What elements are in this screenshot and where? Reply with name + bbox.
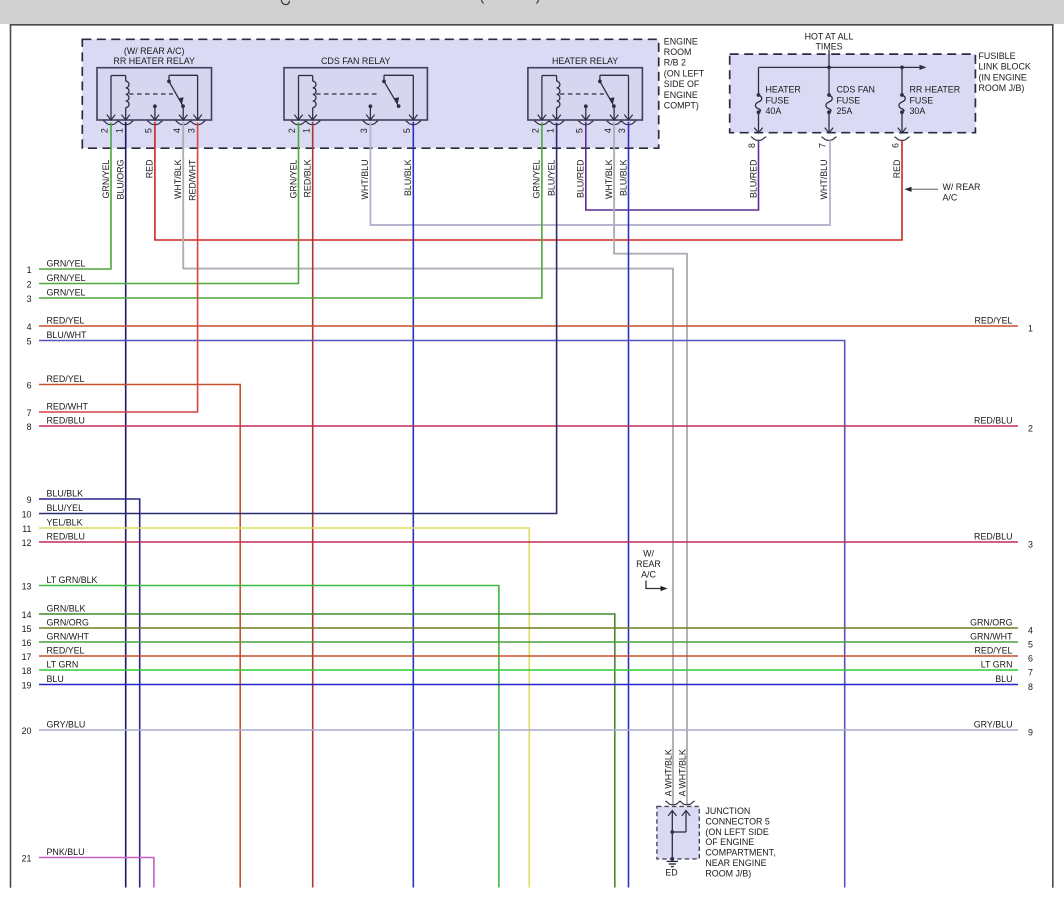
svg-text:6: 6 (1028, 654, 1033, 664)
svg-text:WHT/BLU: WHT/BLU (819, 160, 829, 200)
svg-text:4: 4 (172, 128, 182, 133)
wire: BLU/BLK from heater relay pin3 down off-page (628, 122, 630, 888)
wire row 19: BLU (39, 684, 1018, 686)
svg-text:BLU/WHT: BLU/WHT (47, 330, 88, 340)
svg-text:7: 7 (1028, 668, 1033, 678)
svg-text:(W/ REAR A/C): (W/ REAR A/C) (124, 46, 185, 56)
junction connector 5 (dashed lavender box) (657, 806, 699, 859)
svg-text:5: 5 (402, 128, 412, 133)
wire row 16: GRN/WHT (39, 641, 1018, 643)
wire row 4: RED/YEL (39, 325, 1018, 327)
wire: RR relay pin1 BLU/ORG down off-page (125, 122, 127, 888)
svg-text:BLU: BLU (47, 674, 64, 684)
svg-text:WHT/BLU: WHT/BLU (360, 160, 370, 200)
page frame border (10, 24, 12, 888)
svg-text:RED/BLK: RED/BLK (303, 159, 313, 197)
svg-text:A: A (677, 790, 687, 796)
svg-text:GRN/ORG: GRN/ORG (47, 617, 90, 627)
svg-text:GRY/BLU: GRY/BLU (974, 719, 1013, 729)
svg-text:16: 16 (22, 638, 32, 648)
svg-text:RED/YEL: RED/YEL (47, 374, 85, 384)
svg-text:GRN/YEL: GRN/YEL (47, 287, 86, 297)
svg-text:4: 4 (27, 322, 32, 332)
svg-text:ED: ED (665, 868, 677, 878)
svg-text:3: 3 (359, 128, 369, 133)
wire row 17: RED/YEL (39, 655, 1018, 657)
svg-text:7: 7 (818, 143, 828, 148)
svg-text:NEAR ENGINE: NEAR ENGINE (705, 858, 766, 868)
svg-text:RED/YEL: RED/YEL (975, 315, 1013, 325)
fuse F3 RR HEATER FUSE 30A (900, 93, 904, 97)
svg-text:ROOM J/B): ROOM J/B) (705, 868, 751, 878)
svg-text:2: 2 (27, 280, 32, 290)
svg-text:LT GRN: LT GRN (981, 659, 1013, 669)
svg-text:CDS FAN: CDS FAN (837, 85, 875, 95)
svg-text:GRN/YEL: GRN/YEL (47, 258, 86, 268)
svg-text:WHT/BLK: WHT/BLK (604, 159, 614, 199)
svg-text:3: 3 (617, 128, 627, 133)
svg-text:A/C: A/C (641, 570, 656, 580)
svg-text:18: 18 (22, 666, 32, 676)
svg-text:COMPARTMENT,: COMPARTMENT, (705, 848, 775, 858)
fusible link block (dashed lavender box) (730, 54, 976, 133)
svg-text:FUSE: FUSE (910, 95, 934, 105)
svg-text:RED/YEL: RED/YEL (975, 645, 1013, 655)
svg-text:GRN/BLK: GRN/BLK (47, 603, 86, 613)
svg-text:BLU: BLU (995, 674, 1012, 684)
fusible link block bus wiring (828, 50, 830, 68)
svg-text:BLU/BLK: BLU/BLK (47, 488, 84, 498)
svg-text:WHT/BLK: WHT/BLK (663, 749, 673, 789)
svg-text:WHT/BLK: WHT/BLK (677, 749, 687, 789)
svg-text:COMPT): COMPT) (664, 101, 699, 111)
svg-text:LT GRN: LT GRN (47, 659, 79, 669)
svg-text:19: 19 (22, 681, 32, 691)
svg-text:4: 4 (1028, 626, 1033, 636)
junction connector cups (665, 801, 680, 805)
svg-text:BLU/RED: BLU/RED (748, 160, 758, 198)
svg-text:RR HEATER RELAY: RR HEATER RELAY (113, 56, 195, 66)
wire row 15: GRN/ORG (39, 627, 1018, 629)
svg-text:ROOM: ROOM (664, 47, 692, 57)
svg-text:1: 1 (27, 265, 32, 275)
fuse F1 HEATER FUSE 40A (757, 93, 761, 97)
svg-text:GRN/WHT: GRN/WHT (970, 631, 1013, 641)
svg-text:RED/BLU: RED/BLU (47, 531, 85, 541)
svg-text:14: 14 (22, 610, 32, 620)
wire row 20: GRY/BLU (39, 729, 1018, 731)
svg-text:BLU/ORG: BLU/ORG (116, 159, 126, 199)
svg-text:A: A (663, 790, 673, 796)
svg-text:RR HEATER: RR HEATER (910, 85, 961, 95)
svg-text:HOT AT ALL: HOT AT ALL (805, 32, 854, 42)
wire: WHT/BLK from RR relay pin4 to junction connector (left) (183, 122, 673, 804)
wire row 8: RED/BLU (39, 425, 1018, 427)
svg-text:6: 6 (27, 381, 32, 391)
top gray band (0, 0, 1064, 24)
wire row 13: LT GRN/BLK (39, 586, 499, 888)
svg-text:GRY/BLU: GRY/BLU (47, 719, 86, 729)
wire: WHT/BLU from CDS relay pin3 to fuse 7 (370, 122, 830, 225)
wire row 2: GRN/YEL (39, 123, 299, 284)
relay pin cups and pin numbers (103, 121, 118, 125)
wire row 14: GRN/BLK (39, 614, 615, 888)
svg-text:RED/BLU: RED/BLU (974, 415, 1012, 425)
svg-text:HEATER RELAY: HEATER RELAY (552, 56, 618, 66)
svg-text:8: 8 (747, 143, 757, 148)
svg-text:WHT/BLK: WHT/BLK (173, 159, 183, 199)
svg-text:2: 2 (287, 128, 297, 133)
svg-text:R/B 2: R/B 2 (664, 58, 686, 68)
svg-text:ENGINE: ENGINE (664, 90, 698, 100)
svg-text:1: 1 (114, 128, 124, 133)
svg-text:1: 1 (1028, 324, 1033, 334)
svg-text:BLU/RED: BLU/RED (576, 160, 586, 198)
svg-text:2: 2 (1028, 424, 1033, 434)
wire row 21: PNK/BLU (39, 858, 154, 888)
svg-text:RED/WHT: RED/WHT (47, 401, 89, 411)
wire row 11: YEL/BLK (39, 528, 529, 888)
svg-text:2: 2 (531, 128, 541, 133)
svg-text:GRN/YEL: GRN/YEL (532, 159, 542, 198)
svg-text:6: 6 (891, 143, 901, 148)
svg-text:21: 21 (22, 854, 32, 864)
svg-text:1: 1 (545, 128, 555, 133)
svg-text:RED/BLU: RED/BLU (974, 531, 1012, 541)
svg-text:HEATER: HEATER (766, 85, 801, 95)
svg-text:GRN/YEL: GRN/YEL (288, 159, 298, 198)
fuse F2 CDS FAN FUSE 25A (827, 93, 831, 97)
svg-text:A/C: A/C (943, 193, 958, 203)
svg-text:YEL/BLK: YEL/BLK (47, 517, 83, 527)
svg-text:BLU/BLK: BLU/BLK (618, 159, 628, 196)
svg-text:FUSE: FUSE (837, 95, 861, 105)
svg-text:40A: 40A (766, 106, 782, 116)
wire row 10: BLU/YEL (39, 123, 557, 514)
svg-text:GRN/YEL: GRN/YEL (101, 159, 111, 198)
wire row 5: BLU/WHT (39, 341, 845, 888)
svg-text:ENGINE: ENGINE (664, 36, 698, 46)
wire row 18: LT GRN (39, 669, 1018, 671)
svg-text:RED/YEL: RED/YEL (47, 315, 85, 325)
svg-text:RED: RED (145, 160, 155, 179)
svg-text:5: 5 (575, 128, 585, 133)
wire row 12: RED/BLU (39, 541, 1018, 543)
svg-text:9: 9 (27, 495, 32, 505)
svg-text:1: 1 (301, 128, 311, 133)
wire row 3: GRN/YEL (39, 123, 542, 299)
svg-text:9: 9 (1028, 728, 1033, 738)
svg-text:11: 11 (22, 524, 31, 534)
svg-text:FUSE: FUSE (766, 95, 790, 105)
svg-text:OF ENGINE: OF ENGINE (705, 837, 754, 847)
wire row 6: RED/YEL (39, 385, 240, 888)
svg-text:5: 5 (144, 128, 154, 133)
svg-text:3: 3 (1028, 540, 1033, 550)
svg-text:FUSIBLE: FUSIBLE (979, 51, 1016, 61)
wire: BLU/RED from heater relay pin5 to fuse 8 (586, 122, 759, 210)
wire row 9: BLU/BLK (39, 499, 140, 888)
relay U3 HEATER RELAY (528, 68, 643, 120)
svg-text:PNK/BLU: PNK/BLU (47, 847, 85, 857)
svg-text:GRN/YEL: GRN/YEL (47, 273, 86, 283)
svg-text:25A: 25A (837, 106, 853, 116)
svg-text:ROOM J/B): ROOM J/B) (979, 83, 1025, 93)
relay U1 (W/ REAR A/C) RR HEATER RELAY (97, 68, 212, 120)
svg-text:BLU/BLK: BLU/BLK (403, 159, 413, 196)
svg-text:(IN ENGINE: (IN ENGINE (979, 72, 1027, 82)
relay U2 CDS FAN RELAY (284, 68, 427, 120)
svg-text:15: 15 (22, 624, 32, 634)
wire: RED/BLK from CDS relay pin1 down off-page (312, 122, 314, 888)
wire: WHT/BLK from heater relay pin4 to junction connector (right) (614, 122, 687, 804)
wire: RED from RR relay pin5 to fuse 6 (155, 122, 902, 240)
svg-text:SIDE OF: SIDE OF (664, 79, 700, 89)
svg-text:BLU/YEL: BLU/YEL (47, 503, 84, 513)
svg-text:5: 5 (27, 337, 32, 347)
svg-text:CONNECTOR 5: CONNECTOR 5 (705, 816, 769, 826)
svg-text:RED/BLU: RED/BLU (47, 415, 85, 425)
ground ED (671, 859, 673, 861)
svg-text:W/ REAR: W/ REAR (943, 182, 981, 192)
svg-text:3: 3 (186, 128, 196, 133)
svg-text:2: 2 (100, 128, 110, 133)
svg-text:13: 13 (22, 582, 32, 592)
svg-text:RED/YEL: RED/YEL (47, 645, 85, 655)
svg-text:RED/WHT: RED/WHT (187, 159, 197, 201)
svg-text:W/: W/ (643, 549, 654, 559)
svg-text:GRN/WHT: GRN/WHT (47, 631, 90, 641)
junction internal wiring (668, 811, 676, 816)
wire row 1: GRN/YEL (39, 123, 111, 270)
svg-text:BLU/YEL: BLU/YEL (546, 159, 556, 196)
wire row 7: RED/WHT (39, 123, 198, 413)
svg-text:RED: RED (892, 160, 902, 179)
svg-text:10: 10 (22, 510, 32, 520)
svg-text:20: 20 (22, 726, 32, 736)
engine room relay block R/B 2 (dashed lavender box) (82, 39, 658, 148)
svg-text:17: 17 (22, 652, 32, 662)
wire: BLU/BLK from CDS relay pin5 down off-page (412, 122, 414, 888)
svg-text:30A: 30A (910, 106, 926, 116)
svg-text:8: 8 (27, 422, 32, 432)
svg-text:REAR: REAR (636, 559, 661, 569)
svg-text:(ON LEFT: (ON LEFT (664, 68, 705, 78)
svg-text:GRN/ORG: GRN/ORG (970, 617, 1013, 627)
fuse pin cups and numbers 8 7 6 (751, 137, 766, 141)
svg-text:CDS FAN RELAY: CDS FAN RELAY (321, 56, 390, 66)
svg-text:LT GRN/BLK: LT GRN/BLK (47, 575, 98, 585)
svg-text:5: 5 (1028, 640, 1033, 650)
cut-off title descenders (281, 0, 289, 5)
svg-text:3: 3 (27, 294, 32, 304)
svg-text:4: 4 (603, 128, 613, 133)
svg-text:8: 8 (1028, 682, 1033, 692)
svg-text:LINK BLOCK: LINK BLOCK (979, 62, 1031, 72)
svg-text:(ON LEFT SIDE: (ON LEFT SIDE (705, 827, 769, 837)
svg-text:7: 7 (27, 408, 32, 418)
svg-text:12: 12 (22, 538, 32, 548)
svg-text:JUNCTION: JUNCTION (705, 806, 750, 816)
